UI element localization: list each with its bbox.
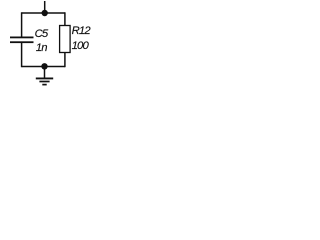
wire: C5 bottom lead [21,43,23,67]
wire: ground stem [44,67,46,79]
svg-text:1n: 1n [36,42,47,54]
wire: R12 bottom lead [64,53,66,68]
wire: bottom horizontal net [22,66,65,68]
capacitor C5 [10,37,34,44]
wire: top stub to off-page [44,1,46,13]
resistor R12 body [60,26,71,53]
ground symbol [36,78,53,84]
svg-text:C5: C5 [35,28,49,40]
junction dot top node [42,10,48,16]
svg-text:100: 100 [72,40,90,52]
wire: C5 top lead [21,12,23,36]
junction dot bottom node [41,63,47,69]
svg-text:R12: R12 [72,25,92,37]
wire: top horizontal net [22,12,65,14]
wire: R12 top lead [64,12,66,25]
